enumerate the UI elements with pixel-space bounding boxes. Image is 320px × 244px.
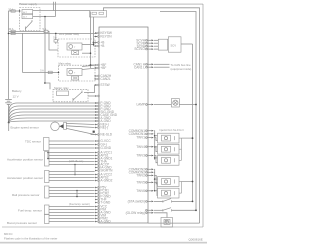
svg-text:A-GND2: A-GND2 [100,179,112,183]
svg-text:SCV: SCV [171,43,177,47]
svg-text:Injector No.1 No.4 No.3: Injector No.1 No.4 No.3 [160,129,185,132]
svg-text:Rail pressure sensor: Rail pressure sensor [12,193,40,197]
svg-text:Flashes code in the illustrati: Flashes code in the illustration of the … [4,237,57,241]
svg-text:TDC sensor: TDC sensor [25,140,41,144]
svg-text:Engine speed sensor: Engine speed sensor [11,125,39,129]
svg-text:TWV5: TWV5 [136,181,145,185]
svg-text:Accelerator position sensor: Accelerator position sensor [7,176,43,180]
svg-text:NE(-): NE(-) [100,126,108,130]
svg-text:TWV6: TWV6 [136,189,145,193]
svg-text:+BF: +BF [100,66,106,70]
svg-text:CAN1 L: CAN1 L [134,65,145,69]
svg-text:LAMP: LAMP [136,103,145,107]
svg-text:(GLOW relay): (GLOW relay) [126,211,145,215]
svg-text:Q000816E: Q000816E [188,238,202,242]
svg-text:NE-SLD: NE-SLD [100,133,112,137]
svg-text:Battery: Battery [12,89,22,93]
svg-text:(with idle sw.): (with idle sw.) [69,160,84,163]
svg-text:5 A: 5 A [40,69,44,72]
svg-text:Accelerator position sensor: Accelerator position sensor [7,158,43,162]
svg-text:(STA switch): (STA switch) [128,200,145,204]
svg-text:Power supply: Power supply [19,2,38,6]
svg-text:5 A: 5 A [43,27,47,31]
svg-text:Main relay: Main relay [59,61,72,65]
svg-text:M6 FC:: M6 FC: [4,232,13,236]
svg-text:G-GND: G-GND [100,146,111,150]
svg-text:Fuel temp. sensor: Fuel temp. sensor [18,208,42,212]
svg-text:SCVLO: SCVLO [134,47,145,51]
svg-text:5 A: 5 A [53,37,57,40]
svg-text:(equipment side): (equipment side) [171,67,192,71]
svg-text:KEYON: KEYON [100,35,112,39]
svg-text:Boost pressure sensor: Boost pressure sensor [7,221,37,225]
svg-text:TWV1: TWV1 [136,136,145,140]
svg-text:+B: +B [100,44,104,48]
svg-text:TWV4: TWV4 [136,145,145,149]
svg-text:(Fuel temp. sensor): (Fuel temp. sensor) [69,203,90,206]
svg-text:STSW: STSW [100,83,109,87]
svg-text:TWV3: TWV3 [136,154,145,158]
svg-text:ACF power relay: ACF power relay [59,32,80,36]
svg-text:A-GND: A-GND [100,220,111,224]
svg-text:TWV2: TWV2 [136,174,145,178]
svg-text:12 V: 12 V [13,94,19,98]
svg-text:CAN2L: CAN2L [100,77,111,81]
